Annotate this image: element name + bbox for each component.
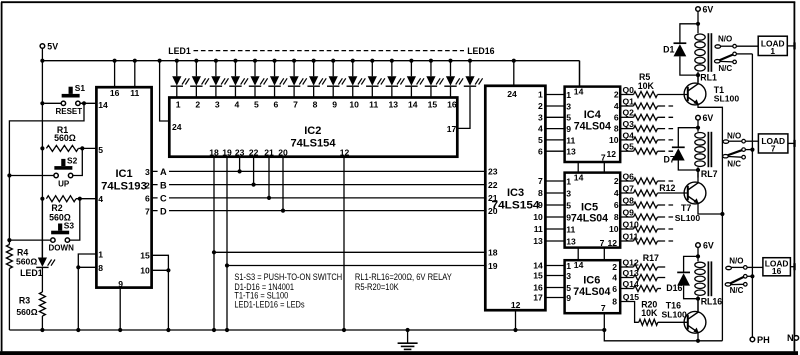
pin 2 label IC6 right (612, 262, 617, 272)
label R20 10K (641, 308, 658, 318)
op IC4 box (565, 87, 621, 162)
pin 10 label IC2 (349, 99, 359, 109)
LED LED8 (307, 76, 326, 86)
svg-text:B: B (160, 180, 167, 190)
N terminal (787, 333, 799, 343)
node: bus pin11 (133, 59, 137, 63)
svg-text:1: 1 (566, 90, 571, 100)
pin 9 label IC1 (118, 279, 123, 289)
svg-text:7: 7 (145, 206, 150, 216)
junction 18-line (212, 250, 216, 254)
wire: IC1 pin 16 to bus (114, 61, 116, 87)
6V terminal stage2 (696, 113, 714, 123)
pin 14 label IC2 (408, 99, 418, 109)
svg-text:16: 16 (772, 266, 782, 276)
label R2 (51, 203, 62, 213)
svg-text:18: 18 (488, 248, 498, 258)
svg-text:16: 16 (533, 283, 543, 293)
pin 9 label IC5 (566, 212, 571, 222)
svg-text:13: 13 (533, 236, 543, 246)
svg-text:23: 23 (488, 167, 498, 177)
load LOAD 16 (763, 258, 791, 277)
pin 15 label IC3 right (533, 271, 543, 281)
node A (158, 166, 169, 177)
svg-text:19: 19 (222, 147, 232, 157)
svg-text:15: 15 (428, 99, 438, 109)
pin 23 label IC3 (488, 167, 498, 177)
svg-text:D: D (160, 206, 167, 216)
resistor Q6 line (620, 171, 674, 184)
wire: vcc chain IC4-IC5 (577, 162, 579, 173)
pin 17 label IC2 (447, 124, 457, 134)
svg-text:7: 7 (600, 238, 605, 248)
node: bus IC3-24 (512, 59, 516, 63)
svg-text:19: 19 (488, 261, 498, 271)
resistor Q1 line (620, 96, 674, 109)
svg-text:18: 18 (209, 147, 219, 157)
svg-text:560Ω: 560Ω (54, 133, 76, 143)
node: bus LED2 (194, 59, 198, 63)
node: emitter bus T16 (696, 339, 700, 343)
pin 7 label IC5 (600, 238, 605, 248)
pin 3 label IC4 (566, 101, 571, 111)
svg-text:PH: PH (757, 335, 770, 345)
svg-text:7: 7 (293, 99, 298, 109)
svg-text:14: 14 (574, 260, 584, 270)
svg-text:14: 14 (574, 173, 584, 183)
label IC2 (304, 125, 321, 137)
op IC3 box (485, 86, 545, 310)
svg-text:8: 8 (98, 263, 103, 273)
pin 11 label IC5 (566, 224, 575, 234)
transistor T7 (684, 182, 706, 204)
LED LED14 (425, 76, 444, 86)
resistor Q8 line (620, 195, 674, 208)
load LOAD 1 (758, 36, 787, 56)
node: coil2-collector (696, 168, 700, 172)
pin 2 label IC4 right (614, 90, 619, 100)
pin 4 label IC4 right (614, 101, 619, 111)
svg-text:Q3: Q3 (623, 119, 635, 129)
wire: IC3 pin 9 stub (545, 204, 563, 206)
resistor Q11 line (620, 231, 674, 244)
op IC6 box (565, 260, 621, 313)
node: pin15-pin10 junction (166, 268, 170, 272)
svg-text:7: 7 (601, 152, 606, 162)
resistor Q14 line (620, 279, 661, 292)
LED LED16 (464, 76, 483, 86)
svg-text:74LS04: 74LS04 (574, 120, 612, 132)
pin 1 label IC6 (566, 261, 571, 271)
wire: IC3 pin 10 stub (545, 216, 563, 218)
svg-text:2: 2 (614, 90, 619, 100)
svg-text:7: 7 (771, 144, 776, 154)
svg-text:24: 24 (172, 122, 182, 132)
wire: LED5 cathode (254, 61, 256, 98)
svg-text:RL1: RL1 (700, 73, 717, 83)
pin 16 label IC2 (447, 99, 457, 109)
pin 1 label IC5 (566, 176, 571, 186)
node: bus LED10 (351, 59, 355, 63)
wire: line A (152, 170, 487, 172)
svg-text:2: 2 (538, 101, 543, 111)
pin 9 label IC6 (566, 293, 571, 303)
wire: IC3 pin 6 stub (545, 150, 563, 152)
resistor Q7 line (620, 183, 688, 196)
pin 21 label IC2 (264, 147, 274, 157)
pin 13 label IC5 (566, 236, 576, 246)
pin 1 label IC1 (98, 250, 103, 260)
pin 7 label IC4 (601, 152, 606, 162)
wire: 5V rail to S1 left (45, 102, 62, 104)
diode D7 (672, 128, 698, 170)
svg-text:R3: R3 (19, 295, 30, 305)
svg-text:5: 5 (566, 200, 571, 210)
wire: IC2 pin 20 to D (282, 157, 284, 211)
label R1 560ohm (54, 133, 76, 143)
label RESET (55, 107, 82, 116)
junction 19-line (225, 263, 229, 267)
node: coil1-collector (696, 73, 700, 77)
wire: IC3 pin 3 stub (545, 116, 563, 118)
wire: IC3 pin 17 stub (545, 297, 563, 299)
wire: LED14 cathode (430, 61, 432, 98)
node: 12 ground (342, 328, 346, 332)
pin 24 label IC3 (507, 89, 517, 99)
svg-text:3: 3 (215, 99, 220, 109)
wire: LED3 cathode (215, 61, 217, 98)
wire: T1 collector (697, 75, 699, 85)
svg-text:Q15: Q15 (623, 292, 639, 302)
label RL16 (701, 297, 723, 307)
node B (158, 179, 169, 190)
wire: NO1 to LOAD1 (737, 45, 759, 47)
transistor T1 (684, 83, 706, 105)
svg-text:15: 15 (533, 271, 543, 281)
label IC6 74LS04 (573, 286, 611, 298)
svg-text:9: 9 (566, 124, 571, 134)
svg-text:13: 13 (566, 236, 576, 246)
node: pin1 rail ground (76, 328, 80, 332)
wire: S2 right up to R1 right (73, 148, 83, 175)
node: 6V junction2 (696, 126, 700, 130)
label RL1 (700, 73, 717, 83)
label R20 (641, 300, 657, 310)
wire: IC1 pin 1 (78, 254, 96, 330)
wire: IC3 pin 15 stub (545, 275, 563, 277)
relay coil RL16 (695, 261, 712, 311)
svg-text:10: 10 (609, 224, 619, 234)
pin 4 label IC2 (234, 99, 239, 109)
node: bus LED14 (429, 59, 433, 63)
svg-text:3: 3 (566, 271, 571, 281)
svg-text:21: 21 (488, 193, 498, 203)
wire: gnd chain IC5-IC6 (603, 248, 605, 261)
svg-text:IC3: IC3 (507, 187, 524, 199)
svg-text:16: 16 (447, 99, 457, 109)
op IC1 box (96, 87, 151, 287)
node: bus LED15 (448, 59, 452, 63)
wire: LED7 cathode (293, 61, 295, 98)
node: pin15 rail ground (166, 328, 170, 332)
svg-text:N/C: N/C (718, 64, 732, 73)
pin 4 label IC6 right (612, 273, 617, 283)
node: bus LED3 (214, 59, 218, 63)
svg-text:74LS154: 74LS154 (291, 138, 337, 150)
svg-text:7: 7 (601, 303, 606, 313)
wire: 5V left rail (41, 61, 43, 258)
6V terminal stage1 (696, 5, 714, 15)
label R4 560ohm (16, 256, 37, 266)
pin 15 label IC2 (428, 99, 438, 109)
label IC3 (507, 187, 524, 199)
node: bus IC2-24 (158, 59, 162, 63)
svg-text:6: 6 (614, 112, 619, 122)
pin 10 label IC4 right (609, 135, 619, 145)
wire: IC3 pin 16 stub (545, 287, 563, 289)
pin 20 label IC3 (488, 206, 498, 216)
pin 5 label IC6 (566, 283, 571, 293)
label T1 SL100 (714, 94, 740, 104)
pin 9 label IC2 (332, 99, 337, 109)
resistor Q3 line (620, 119, 674, 132)
pin 13 label IC4 (566, 147, 576, 157)
pin 7 label IC3 right (538, 176, 543, 186)
pin 14 label IC4 (574, 86, 584, 96)
junction bus-left (40, 59, 44, 63)
label N/C stage2 (727, 160, 741, 169)
wire: left rail to S2 (9, 175, 54, 177)
pin 8 label IC6 right (612, 297, 617, 307)
node: R1 left (40, 146, 44, 150)
label R2 560ohm (49, 212, 71, 222)
svg-text:14: 14 (408, 99, 418, 109)
pin 2 label IC1 (145, 180, 150, 190)
resistor R2 (46, 196, 96, 202)
label R1 (57, 125, 68, 135)
label T7 (681, 203, 691, 213)
LED LED7 (288, 76, 307, 86)
label LED1 (20, 268, 43, 278)
svg-text:RL1-RL16=200Ω, 6V RELAY: RL1-RL16=200Ω, 6V RELAY (355, 272, 452, 282)
svg-text:RL16: RL16 (701, 297, 723, 307)
node: IC6-7 ground (602, 328, 606, 332)
wire: LED12 cathode (391, 61, 393, 98)
wire: common bus to PH (751, 54, 753, 337)
node: 6V junction3 (696, 254, 700, 258)
wire: ground rail (9, 329, 604, 331)
label IC4 (584, 109, 602, 121)
label N/C stage3 (730, 286, 744, 295)
svg-text:R17: R17 (643, 253, 659, 263)
node D (158, 205, 169, 216)
wire: LED10 cathode (352, 61, 354, 98)
wire: IC3 pin 5 stub (545, 139, 563, 141)
wire: S1 output down-left to pulldown rail (9, 103, 84, 244)
pin 12 label IC4 (607, 149, 617, 159)
label D7 (664, 154, 675, 164)
pin 8 label IC5 right (614, 212, 619, 222)
svg-text:11: 11 (369, 99, 378, 109)
svg-text:D1: D1 (663, 45, 674, 55)
wire: 5V rail to LED1 (41, 199, 43, 258)
wire: IC2 pin 24 to 5V bus (160, 61, 170, 121)
wire: T1 emitter to bus (698, 103, 722, 340)
svg-text:11: 11 (566, 224, 575, 234)
label T16 SL100 (662, 309, 688, 319)
wire: IC1 pin 11 to bus (134, 61, 136, 87)
label D1 (663, 45, 674, 55)
svg-text:16: 16 (110, 88, 120, 98)
svg-text:10: 10 (609, 135, 619, 145)
svg-text:N/C: N/C (730, 286, 744, 295)
note: switch legend (234, 272, 342, 310)
svg-text:1: 1 (770, 46, 775, 56)
wire: line B (152, 184, 487, 186)
LED LED2 (190, 76, 209, 86)
LED LED10 (347, 76, 366, 86)
pin 6 label IC4 right (614, 112, 619, 122)
svg-text:3: 3 (538, 112, 543, 122)
svg-text:6: 6 (145, 194, 150, 204)
svg-text:3: 3 (566, 101, 571, 111)
svg-text:22: 22 (249, 147, 259, 157)
label LED16 top (467, 46, 494, 56)
node: 18 ground (212, 328, 216, 332)
wire: IC2 pin 12 to ground (343, 157, 345, 330)
svg-text:9: 9 (566, 212, 571, 222)
wire: LED6 cathode (274, 61, 276, 98)
wire: 6V to coil RL1 (697, 11, 699, 33)
PH terminal (750, 335, 770, 345)
resistor Q4 line (620, 130, 674, 143)
wire: IC2 pin 22 to B (253, 157, 255, 185)
label IC4 74LS04 (574, 120, 612, 132)
LED LED12 (386, 76, 405, 86)
pin 23 label IC2 (235, 147, 245, 157)
LED LED5 (249, 76, 268, 86)
svg-text:5: 5 (566, 283, 571, 293)
wire: LED1 cathode (176, 61, 178, 98)
junction C-21 (267, 196, 271, 200)
wire: line C (152, 197, 487, 199)
pin 22 label IC3 (488, 180, 498, 190)
wire: LED9 cathode (332, 61, 334, 98)
svg-text:N/O: N/O (718, 35, 732, 44)
svg-text:74LS193: 74LS193 (101, 181, 147, 193)
wire: LED2 cathode (195, 61, 197, 98)
label T7 SL100 (675, 213, 701, 223)
svg-text:20: 20 (278, 147, 288, 157)
label IC1 74LS193 (101, 181, 147, 193)
wire: NO3 to LOAD16 (747, 266, 763, 268)
ground symbol (398, 330, 418, 349)
pin 14 label IC6 (574, 260, 584, 270)
diode D1 (674, 24, 699, 75)
svg-text:11: 11 (566, 135, 575, 145)
pin 14 label IC5 (574, 173, 584, 183)
LED LED3 (210, 76, 229, 86)
svg-text:6: 6 (538, 146, 543, 156)
wire: 6V to coil RL7 (697, 120, 699, 132)
relay coil RL1 (695, 33, 712, 82)
svg-text:7: 7 (538, 176, 543, 186)
node: pin9 ground (118, 328, 122, 332)
svg-text:9: 9 (118, 279, 123, 289)
label LED1 top (168, 46, 191, 56)
label T16 (666, 301, 681, 311)
resistor Q10 line (620, 219, 674, 232)
resistor Q9 line (620, 207, 674, 220)
pin 5 label IC3 right (538, 135, 543, 145)
wire: LED16 cathode (457, 61, 470, 129)
relay contact RL1 (715, 44, 737, 63)
wire: IC3 pin 24 to bus (513, 61, 515, 86)
pin 3 label IC2 (215, 99, 220, 109)
svg-text:6V: 6V (703, 113, 714, 123)
svg-text:1: 1 (98, 250, 103, 260)
wire: IC3 pin 2 stub (545, 105, 563, 107)
svg-text:74LS04: 74LS04 (573, 286, 611, 298)
pin 4 label IC5 right (614, 188, 619, 198)
wire: IC3 pin 4 stub (545, 128, 563, 130)
label IC5 (581, 201, 598, 213)
pin 14 label IC1 (98, 100, 108, 110)
svg-text:D7: D7 (664, 154, 675, 164)
svg-text:21: 21 (264, 147, 274, 157)
svg-text:Q5: Q5 (623, 142, 635, 152)
pin 7 label IC6 (601, 303, 606, 313)
label R3 560ohm (16, 307, 37, 317)
svg-text:10K: 10K (638, 81, 655, 91)
svg-text:C: C (160, 194, 167, 204)
resistor Q0 line (620, 85, 688, 98)
svg-text:5: 5 (566, 113, 571, 123)
label N/O stage2 (727, 131, 741, 140)
wire: LOAD7 to N line (788, 142, 795, 144)
node: S1 output junction (82, 101, 86, 105)
LED LED11 (366, 76, 385, 86)
svg-text:Q2: Q2 (623, 108, 635, 118)
svg-text:11: 11 (534, 224, 543, 234)
node: emitter bus T7 (720, 212, 724, 216)
node: bus LED1 (175, 59, 179, 63)
wire: IC1 pin 8 (78, 266, 96, 268)
node: rail to S2 (7, 173, 11, 177)
svg-text:LED1: LED1 (168, 46, 191, 56)
wire: enable line 18 (214, 251, 487, 253)
svg-text:13: 13 (566, 147, 576, 157)
pin 3 label IC6 (566, 271, 571, 281)
svg-text:D16: D16 (666, 283, 682, 293)
svg-text:4: 4 (614, 101, 619, 111)
svg-text:N/O: N/O (729, 257, 743, 266)
pin 12 label IC2 (340, 147, 350, 157)
pin 15 label IC1 (140, 250, 150, 260)
svg-text:N/C: N/C (727, 160, 741, 169)
svg-text:IC1: IC1 (115, 168, 132, 180)
label N/C stage1 (718, 64, 732, 73)
svg-text:Q1: Q1 (623, 96, 635, 106)
svg-text:Q8: Q8 (623, 195, 635, 205)
pin 8 label IC2 (313, 99, 318, 109)
label RL7 (701, 169, 718, 179)
node C (158, 192, 169, 203)
svg-text:DOWN: DOWN (49, 244, 75, 253)
svg-text:Q9: Q9 (623, 207, 635, 217)
wire: IC1 pin 15 (152, 255, 169, 330)
wire: 5V top bus (42, 61, 579, 86)
